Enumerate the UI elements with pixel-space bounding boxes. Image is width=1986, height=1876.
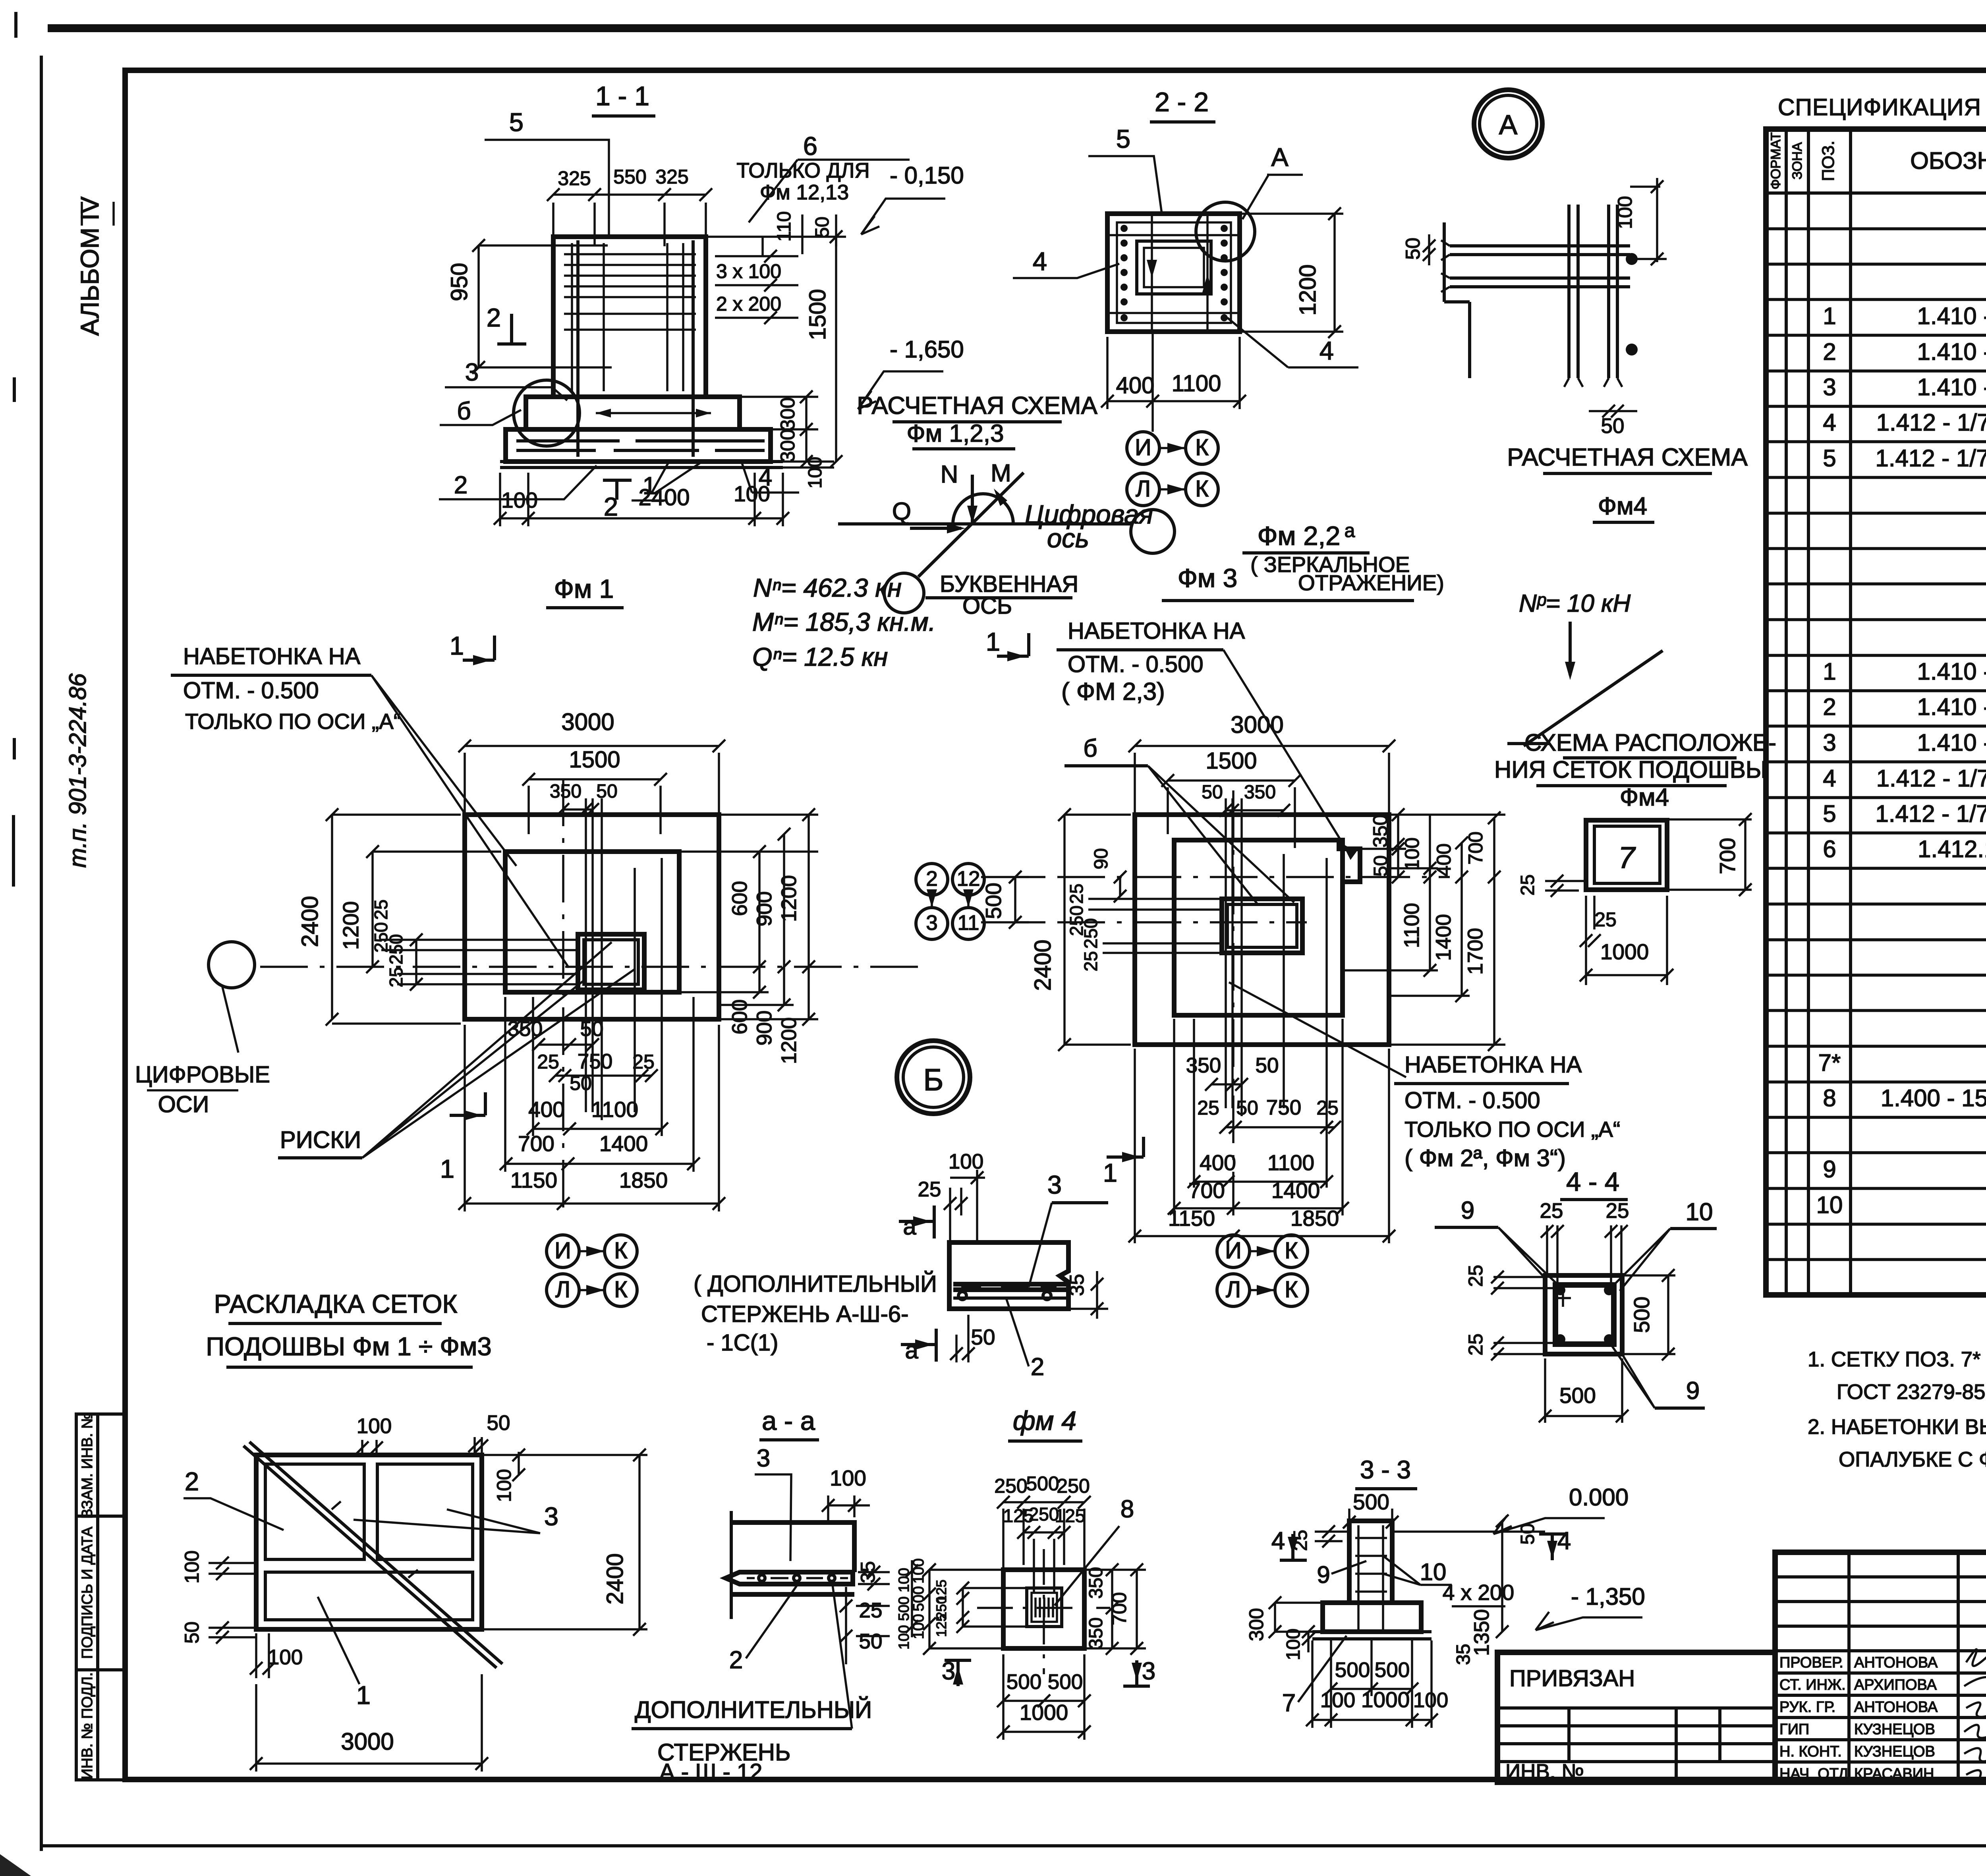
svg-text:N: N: [941, 461, 958, 488]
svg-text:3: 3: [757, 1445, 770, 1472]
svg-text:25: 25: [632, 1051, 655, 1073]
svg-text:2: 2: [1823, 694, 1836, 720]
section 4-4: [1435, 1167, 1717, 1423]
svg-text:5: 5: [1823, 445, 1836, 471]
svg-text:ПОЗ.: ПОЗ.: [1819, 141, 1838, 181]
svg-text:( ФМ 2,3): ( ФМ 2,3): [1061, 678, 1165, 705]
svg-text:100: 100: [1320, 1689, 1355, 1712]
svg-text:5: 5: [1823, 800, 1836, 827]
svg-text:СТ. ИНЖ.: СТ. ИНЖ.: [1779, 1677, 1846, 1693]
svg-text:т.п. 901-3-224.86: т.п. 901-3-224.86: [64, 673, 91, 868]
svg-text:9: 9: [1317, 1561, 1330, 1588]
svg-text:9: 9: [1686, 1377, 1700, 1405]
svg-text:А: А: [1271, 143, 1289, 172]
svg-text:1: 1: [440, 1154, 454, 1183]
svg-text:СПЕЦИФИКАЦИЯ ЭЛЕМЕНТОВ МОНОЛ: СПЕЦИФИКАЦИЯ ЭЛЕМЕНТОВ МОНОЛИТНЫХ ФУНДАМ…: [1778, 94, 1986, 120]
svg-text:И: И: [1135, 435, 1151, 460]
svg-text:2: 2: [1031, 1353, 1044, 1381]
svg-text:2 х 200: 2 х 200: [716, 293, 781, 315]
svg-text:Л: Л: [1136, 476, 1151, 502]
svg-text:1: 1: [1823, 658, 1836, 685]
svg-text:АЛЬБОМ IV: АЛЬБОМ IV: [75, 196, 104, 336]
svg-text:500: 500: [1335, 1658, 1370, 1682]
svg-text:7*: 7*: [1818, 1049, 1841, 1076]
svg-text:325: 325: [655, 166, 688, 188]
svg-text:1500: 1500: [805, 289, 831, 340]
svg-text:К: К: [1285, 1238, 1298, 1264]
svg-text:6: 6: [1823, 836, 1836, 862]
svg-text:И: И: [1225, 1238, 1242, 1264]
svg-text:400: 400: [1200, 1150, 1236, 1175]
svg-text:50: 50: [1402, 238, 1424, 260]
svg-text:ОБОЗНАЧЕНИЕ: ОБОЗНАЧЕНИЕ: [1910, 147, 1986, 174]
svg-text:50: 50: [580, 1017, 604, 1041]
svg-text:ГОСТ 23279-85.: ГОСТ 23279-85.: [1837, 1380, 1986, 1404]
svg-text:ОПАЛУБКЕ С ФУНДАМЕНТОМ.: ОПАЛУБКЕ С ФУНДАМЕНТОМ.: [1839, 1448, 1986, 1471]
svg-text:СТЕРЖЕНЬ А-Ш-6-: СТЕРЖЕНЬ А-Ш-6-: [701, 1301, 908, 1327]
svg-text:3 х 100: 3 х 100: [716, 260, 781, 282]
svg-text:Фм 1: Фм 1: [554, 574, 614, 603]
svg-text:2: 2: [926, 867, 937, 891]
svg-text:ОТМ. - 0.500: ОТМ. - 0.500: [183, 678, 319, 703]
detail A corner drawing: [1402, 178, 1667, 438]
svg-text:РАСЧЕТНАЯ СХЕМА: РАСЧЕТНАЯ СХЕМА: [1507, 444, 1748, 471]
svg-text:400: 400: [1433, 843, 1455, 876]
section 3-3: [1245, 1455, 1645, 1728]
svg-text:25: 25: [1197, 1097, 1219, 1119]
svg-text:100: 100: [896, 1568, 912, 1592]
svg-text:1.412 - 1/77 - В.3 - 110: 1.412 - 1/77 - В.3 - 110: [1876, 765, 1986, 792]
svg-text:4: 4: [1033, 247, 1047, 276]
svg-text:25: 25: [1290, 1530, 1311, 1551]
svg-text:1100: 1100: [1172, 371, 1221, 396]
svg-text:1850: 1850: [619, 1168, 668, 1192]
svg-text:СХЕМА РАСПОЛОЖЕ-: СХЕМА РАСПОЛОЖЕ-: [1524, 729, 1776, 756]
svg-text:1000: 1000: [1361, 1687, 1410, 1712]
svg-text:ТОЛЬКО ПО ОСИ „А“: ТОЛЬКО ПО ОСИ „А“: [1404, 1117, 1620, 1142]
svg-text:3000: 3000: [341, 1728, 394, 1755]
svg-text:1.400 - 15.81.130 - 30: 1.400 - 15.81.130 - 30: [1881, 1085, 1986, 1111]
detail a-a: [632, 1406, 927, 1785]
svg-text:25: 25: [1464, 1333, 1487, 1356]
svg-text:50: 50: [1517, 1523, 1538, 1544]
svg-text:1.410 - 3.1 - 01: 1.410 - 3.1 - 01: [1917, 658, 1986, 685]
svg-text:300: 300: [777, 429, 799, 462]
svg-text:0.000: 0.000: [1569, 1484, 1629, 1511]
svg-text:2400: 2400: [638, 485, 690, 510]
svg-text:1.412 - 1/77 - В.3 - 060: 1.412 - 1/77 - В.3 - 060: [1875, 445, 1986, 471]
svg-text:1: 1: [1103, 1158, 1117, 1187]
svg-text:Фм 2,2: Фм 2,2: [1258, 521, 1341, 551]
svg-text:1400: 1400: [1271, 1178, 1320, 1203]
svg-text:250: 250: [994, 1475, 1027, 1497]
svg-text:2: 2: [454, 471, 468, 499]
left margin stamp boxes: [76, 1412, 125, 1780]
svg-text:100: 100: [1401, 837, 1423, 870]
notes text: [1808, 1348, 1986, 1471]
svg-text:50: 50: [1236, 1097, 1258, 1119]
svg-text:25: 25: [371, 899, 391, 920]
svg-text:1100: 1100: [1400, 903, 1424, 948]
svg-text:50: 50: [859, 1630, 883, 1653]
svg-text:3: 3: [1142, 1658, 1155, 1685]
svg-text:ОТМ. - 0.500: ОТМ. - 0.500: [1404, 1088, 1540, 1113]
svg-text:3: 3: [926, 911, 937, 935]
svg-text:5: 5: [1116, 124, 1130, 153]
svg-text:25: 25: [1606, 1199, 1629, 1223]
svg-text:А - Ш - 12: А - Ш - 12: [659, 1759, 762, 1785]
svg-text:1: 1: [450, 631, 464, 660]
svg-text:1100: 1100: [591, 1097, 638, 1122]
svg-text:2 - 2: 2 - 2: [1155, 87, 1209, 117]
svg-text:2400: 2400: [297, 896, 323, 947]
svg-text:50: 50: [570, 1072, 592, 1094]
svg-text:Л: Л: [555, 1277, 570, 1302]
svg-text:Фм4: Фм4: [1598, 493, 1647, 520]
svg-text:ИНВ. №: ИНВ. №: [1505, 1760, 1584, 1783]
title block privyazan: [1497, 1652, 1775, 1783]
svg-text:3: 3: [1823, 374, 1836, 400]
svg-text:Mⁿ= 185,3 кн.м.: Mⁿ= 185,3 кн.м.: [752, 607, 936, 636]
svg-text:4: 4: [1823, 765, 1836, 792]
svg-text:2: 2: [1823, 338, 1836, 365]
svg-text:1500: 1500: [569, 747, 620, 773]
svg-text:25: 25: [918, 1178, 941, 1201]
svg-text:900: 900: [753, 1010, 776, 1045]
svg-text:300: 300: [1245, 1608, 1267, 1641]
svg-text:( Фм 2ª, Фм 3“): ( Фм 2ª, Фм 3“): [1404, 1145, 1566, 1171]
svg-text:500: 500: [896, 1596, 912, 1621]
scan artifacts: [0, 12, 31, 1876]
svg-text:50: 50: [1601, 414, 1625, 438]
svg-text:К: К: [614, 1238, 628, 1264]
svg-text:6: 6: [803, 131, 817, 160]
svg-text:500: 500: [1026, 1472, 1059, 1495]
svg-text:- 1С(1): - 1С(1): [707, 1330, 778, 1356]
svg-text:1400: 1400: [1432, 914, 1455, 961]
raskladka setok: [181, 1289, 647, 1772]
svg-text:ДОПОЛНИТЕЛЬНЫЙ: ДОПОЛНИТЕЛЬНЫЙ: [635, 1696, 872, 1723]
svg-text:НАЧ. ОТД: НАЧ. ОТД: [1779, 1766, 1849, 1782]
svg-text:25: 25: [1517, 874, 1538, 895]
calc scheme FM4: [1507, 444, 1748, 746]
svg-text:1000: 1000: [1600, 939, 1649, 964]
svg-text:1200: 1200: [338, 901, 363, 950]
svg-text:ВЗАМ. ИНВ. №: ВЗАМ. ИНВ. №: [79, 1412, 96, 1519]
svg-text:ТОЛЬКО ПО ОСИ „А“: ТОЛЬКО ПО ОСИ „А“: [185, 709, 401, 734]
svg-text:Nᵖ= 10 кН: Nᵖ= 10 кН: [1519, 590, 1631, 617]
svg-text:И: И: [554, 1238, 571, 1264]
svg-text:350: 350: [1086, 1567, 1107, 1599]
svg-text:350: 350: [1244, 782, 1276, 803]
svg-text:500: 500: [1007, 1670, 1041, 1694]
svg-text:Фм 12,13: Фм 12,13: [760, 181, 849, 204]
svg-text:250: 250: [1057, 1475, 1090, 1497]
svg-text:Qⁿ= 12.5 кн: Qⁿ= 12.5 кн: [752, 642, 888, 671]
svg-text:- 1,350: - 1,350: [1571, 1583, 1645, 1610]
svg-text:КУЗНЕЦОВ: КУЗНЕЦОВ: [1854, 1743, 1935, 1760]
svg-text:8: 8: [1823, 1085, 1836, 1111]
svg-text:125: 125: [934, 1614, 949, 1637]
svg-text:100: 100: [501, 488, 538, 512]
svg-text:125: 125: [1055, 1505, 1086, 1526]
svg-text:600: 600: [728, 881, 752, 916]
svg-text:5: 5: [509, 108, 524, 137]
svg-text:ЦИФРОВЫЕ: ЦИФРОВЫЕ: [135, 1062, 270, 1088]
svg-text:4: 4: [1823, 409, 1836, 436]
svg-text:а: а: [1345, 520, 1355, 541]
svg-text:350: 350: [1369, 814, 1391, 847]
svg-text:1500: 1500: [1206, 748, 1257, 774]
svg-text:б: б: [1083, 735, 1097, 762]
svg-text:4: 4: [1271, 1527, 1285, 1555]
svg-text:25: 25: [1464, 1265, 1487, 1287]
svg-text:ось: ось: [1047, 524, 1089, 553]
svg-text:РАСЧЕТНАЯ СХЕМА: РАСЧЕТНАЯ СХЕМА: [857, 392, 1097, 419]
svg-text:100: 100: [181, 1550, 203, 1583]
svg-text:2: 2: [185, 1467, 199, 1496]
svg-text:ОТМ. - 0.500: ОТМ. - 0.500: [1068, 651, 1204, 677]
svg-text:1 - 1: 1 - 1: [595, 81, 649, 111]
title block main: [1775, 1552, 1986, 1783]
svg-text:3: 3: [1047, 1170, 1062, 1199]
svg-text:500: 500: [1559, 1383, 1596, 1408]
svg-text:25: 25: [1540, 1199, 1563, 1223]
svg-text:100: 100: [830, 1466, 866, 1490]
svg-text:9: 9: [1461, 1197, 1474, 1224]
svg-text:500: 500: [981, 883, 1006, 919]
svg-text:Н. КОНТ.: Н. КОНТ.: [1779, 1743, 1842, 1760]
svg-text:350: 350: [550, 781, 582, 802]
svg-text:1200: 1200: [777, 875, 801, 922]
svg-text:500: 500: [1048, 1670, 1083, 1694]
svg-text:250: 250: [1080, 918, 1101, 949]
svg-text:РИСКИ: РИСКИ: [280, 1126, 361, 1153]
svg-text:ФОРМАТ: ФОРМАТ: [1768, 132, 1783, 189]
svg-text:1.412 - 1/77 - В.3 - 110: 1.412 - 1/77 - В.3 - 110: [1876, 409, 1986, 436]
svg-text:500: 500: [1375, 1658, 1410, 1682]
svg-text:Фм 1,2,3: Фм 1,2,3: [907, 420, 1004, 447]
svg-text:Б: Б: [923, 1062, 943, 1097]
svg-text:25: 25: [1066, 883, 1087, 904]
svg-text:50: 50: [1202, 782, 1223, 803]
svg-text:КРАСАВИН: КРАСАВИН: [1854, 1766, 1934, 1782]
svg-text:950: 950: [446, 263, 472, 301]
svg-text:8: 8: [1121, 1495, 1134, 1523]
svg-text:РАСКЛАДКА СЕТОК: РАСКЛАДКА СЕТОК: [214, 1289, 458, 1318]
svg-text:4 х 200: 4 х 200: [1443, 1580, 1514, 1605]
svg-text:РУК. ГР.: РУК. ГР.: [1779, 1699, 1835, 1716]
svg-text:АНТОНОВА: АНТОНОВА: [1854, 1699, 1938, 1716]
svg-text:ГИП: ГИП: [1779, 1721, 1809, 1738]
svg-text:700: 700: [1464, 831, 1487, 864]
svg-text:3: 3: [465, 359, 479, 386]
svg-text:1.410 - 3.1 - 04: 1.410 - 3.1 - 04: [1917, 338, 1986, 365]
svg-text:25: 25: [859, 1599, 883, 1622]
svg-text:7: 7: [1618, 841, 1636, 875]
svg-text:б: б: [457, 398, 471, 425]
svg-text:ИНВ. № ПОДЛ.: ИНВ. № ПОДЛ.: [79, 1672, 96, 1779]
svg-text:35: 35: [1453, 1644, 1474, 1665]
svg-text:4 - 4: 4 - 4: [1566, 1167, 1619, 1197]
svg-text:50: 50: [181, 1621, 203, 1644]
svg-text:700: 700: [1715, 838, 1740, 874]
svg-text:2: 2: [487, 303, 501, 332]
svg-text:750: 750: [1266, 1096, 1301, 1119]
svg-text:1100: 1100: [1267, 1150, 1314, 1175]
svg-text:1.412 - 1/77 - В.3 - 060: 1.412 - 1/77 - В.3 - 060: [1875, 800, 1986, 827]
svg-text:К: К: [1195, 476, 1209, 502]
detail A circle: [1474, 90, 1542, 158]
svg-text:35: 35: [1066, 1274, 1088, 1296]
svg-text:4: 4: [1557, 1527, 1571, 1555]
svg-text:300: 300: [777, 397, 799, 430]
svg-text:ПОДПИСЬ И ДАТА: ПОДПИСЬ И ДАТА: [79, 1526, 96, 1659]
svg-text:1: 1: [356, 1681, 371, 1710]
svg-text:К: К: [1285, 1277, 1298, 1302]
svg-text:90: 90: [1091, 848, 1112, 869]
svg-text:НАБЕТОНКА НА: НАБЕТОНКА НА: [183, 643, 361, 669]
spec table rows content: [1816, 194, 1986, 1289]
svg-text:а - а: а - а: [762, 1406, 815, 1436]
svg-text:ПОДОШВЫ Фм 1 ÷ Фм3: ПОДОШВЫ Фм 1 ÷ Фм3: [206, 1332, 491, 1361]
scheme setok podoshvy FM4: [1494, 729, 1776, 985]
plan FM3: [916, 520, 1620, 1306]
svg-text:2400: 2400: [1030, 939, 1056, 991]
svg-text:2: 2: [729, 1646, 743, 1674]
svg-text:M: M: [991, 460, 1011, 487]
svg-text:1.410 - 3.1 - 04: 1.410 - 3.1 - 04: [1917, 729, 1986, 756]
svg-text:Nⁿ= 462.3 кн: Nⁿ= 462.3 кн: [753, 573, 902, 602]
svg-text:325: 325: [558, 167, 591, 189]
svg-text:ОСИ: ОСИ: [158, 1092, 209, 1117]
svg-text:50: 50: [1256, 1054, 1279, 1077]
section 2-2: [1013, 87, 1358, 506]
svg-text:11: 11: [957, 911, 979, 935]
plan FM4: [896, 1406, 1155, 1740]
svg-text:1150: 1150: [510, 1168, 557, 1192]
svg-text:НАБЕТОНКА НА: НАБЕТОНКА НА: [1068, 618, 1245, 644]
svg-text:АРХИПОВА: АРХИПОВА: [1854, 1677, 1937, 1693]
svg-text:1: 1: [1823, 303, 1836, 329]
svg-text:700: 700: [518, 1131, 554, 1156]
left margin rotated captions: [64, 196, 114, 867]
svg-text:50: 50: [596, 781, 617, 802]
svg-text:9: 9: [1823, 1156, 1836, 1182]
svg-text:1.410 - 3.1 - 04: 1.410 - 3.1 - 04: [1917, 374, 1986, 400]
svg-text:550: 550: [613, 166, 646, 188]
svg-text:( ДОПОЛНИТЕЛЬНЫЙ: ( ДОПОЛНИТЕЛЬНЫЙ: [694, 1271, 937, 1297]
svg-text:Q: Q: [892, 498, 911, 525]
svg-text:350: 350: [1186, 1054, 1221, 1077]
svg-text:АНТОНОВА: АНТОНОВА: [1854, 1654, 1938, 1671]
svg-text:3 - 3: 3 - 3: [1360, 1455, 1411, 1484]
svg-text:100: 100: [1283, 1629, 1304, 1660]
svg-text:3000: 3000: [1231, 711, 1283, 738]
svg-text:3: 3: [1823, 729, 1836, 756]
svg-text:500: 500: [1629, 1296, 1654, 1333]
svg-text:1200: 1200: [777, 1017, 801, 1064]
svg-text:100: 100: [357, 1414, 392, 1438]
svg-text:1. СЕТКУ ПОЗ. 7* ВЫПОЛНИТЬ: 1. СЕТКУ ПОЗ. 7* ВЫПОЛНИТЬ ПО: [1808, 1348, 1986, 1371]
svg-text:10: 10: [1816, 1192, 1843, 1218]
svg-text:2400: 2400: [602, 1553, 628, 1604]
svg-text:50: 50: [1370, 855, 1391, 876]
svg-text:25: 25: [1080, 951, 1101, 971]
svg-text:50: 50: [487, 1411, 510, 1435]
svg-text:100: 100: [949, 1150, 983, 1173]
detail dop sterzhen 3: [694, 1150, 1108, 1381]
svg-text:- 1,650: - 1,650: [890, 336, 964, 363]
svg-text:1.412.1 - 4.060: 1.412.1 - 4.060: [1918, 836, 1986, 862]
svg-text:50: 50: [812, 216, 833, 238]
svg-text:1.410 - 3.1 - 01: 1.410 - 3.1 - 01: [1917, 303, 1986, 329]
svg-text:100: 100: [1614, 196, 1636, 229]
svg-text:Фм 3: Фм 3: [1178, 563, 1238, 593]
svg-text:25: 25: [537, 1051, 559, 1073]
svg-text:10: 10: [1686, 1198, 1713, 1226]
svg-text:1000: 1000: [1020, 1700, 1068, 1725]
node B circle: [897, 1041, 970, 1114]
calc scheme FM 1,2,3: [752, 392, 1175, 671]
spec table grid: [1766, 129, 1986, 1295]
svg-text:К: К: [614, 1277, 628, 1302]
svg-text:50: 50: [971, 1325, 995, 1349]
svg-text:НИЯ СЕТОК ПОДОШВЫ: НИЯ СЕТОК ПОДОШВЫ: [1494, 756, 1767, 783]
svg-text:НАБЕТОНКА НА: НАБЕТОНКА НА: [1404, 1052, 1582, 1078]
spec table headers: [1768, 132, 1986, 189]
svg-text:100: 100: [493, 1469, 515, 1502]
svg-text:КУЗНЕЦОВ: КУЗНЕЦОВ: [1854, 1721, 1935, 1738]
svg-text:3000: 3000: [561, 709, 614, 735]
svg-text:1850: 1850: [1291, 1206, 1339, 1231]
svg-text:ОТРАЖЕНИЕ): ОТРАЖЕНИЕ): [1298, 570, 1444, 595]
svg-text:ЗОНА: ЗОНА: [1790, 142, 1805, 180]
svg-text:1700: 1700: [1464, 928, 1487, 975]
plan FM1: [135, 574, 924, 1306]
svg-text:1: 1: [986, 627, 1000, 656]
svg-text:1400: 1400: [599, 1131, 648, 1156]
svg-text:25: 25: [1594, 908, 1617, 931]
svg-text:1200: 1200: [1295, 264, 1321, 315]
section 1-1: [439, 81, 964, 526]
svg-text:4: 4: [1319, 336, 1334, 365]
svg-text:500: 500: [1353, 1490, 1389, 1514]
svg-text:ТОЛЬКО ДЛЯ: ТОЛЬКО ДЛЯ: [736, 159, 869, 182]
svg-text:350: 350: [508, 1017, 543, 1041]
svg-text:Л: Л: [1226, 1277, 1241, 1302]
svg-text:7: 7: [1282, 1689, 1296, 1717]
svg-text:фм 4: фм 4: [1013, 1406, 1076, 1436]
svg-text:350: 350: [1086, 1617, 1107, 1649]
svg-text:К: К: [1195, 435, 1209, 460]
svg-text:1.410 - 3.1 - 04: 1.410 - 3.1 - 04: [1917, 694, 1986, 720]
svg-text:400: 400: [1116, 373, 1155, 398]
svg-text:- 0,150: - 0,150: [890, 162, 964, 189]
svg-text:100: 100: [896, 1625, 912, 1650]
svg-text:12: 12: [957, 867, 980, 891]
svg-text:3: 3: [544, 1502, 558, 1531]
svg-text:Фм4: Фм4: [1620, 784, 1669, 811]
svg-text:2. НАБЕТОНКИ ВЫПОЛНЯЮТСЯ В: 2. НАБЕТОНКИ ВЫПОЛНЯЮТСЯ В ОДНОЙ: [1808, 1414, 1986, 1439]
svg-text:А: А: [1499, 109, 1518, 140]
svg-text:750: 750: [578, 1050, 612, 1073]
svg-text:ПРИВЯЗАН: ПРИВЯЗАН: [1509, 1665, 1635, 1691]
svg-text:100: 100: [734, 481, 770, 506]
svg-text:ПРОВЕР.: ПРОВЕР.: [1779, 1654, 1843, 1671]
svg-text:900: 900: [753, 891, 776, 926]
